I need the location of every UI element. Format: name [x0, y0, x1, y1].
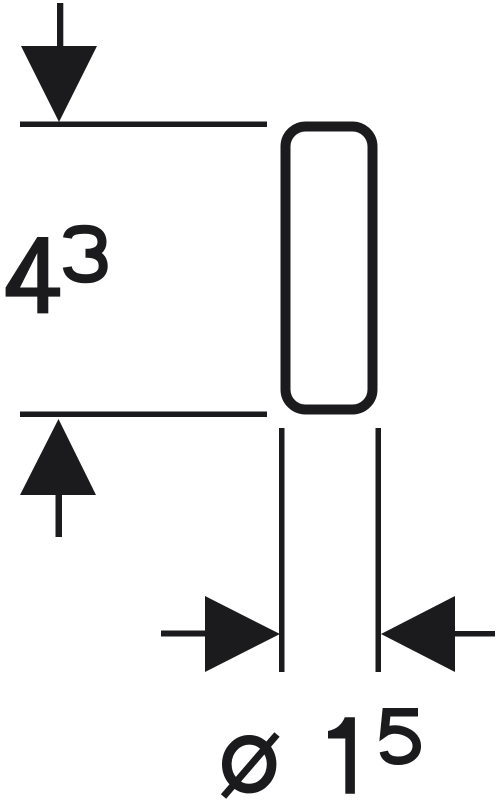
diameter symbol slash stroke — [224, 735, 278, 797]
diameter dimension label digit 1 — [328, 717, 355, 794]
dimension arrow left (pointing at right extension line) — [381, 596, 495, 672]
diameter dimension superscript digit 5 — [384, 712, 418, 761]
lower extension line — [20, 412, 267, 418]
diameter symbol o-slash ring — [227, 740, 272, 789]
left extension line (below part) — [279, 428, 285, 672]
right extension line (below part) — [376, 428, 382, 672]
dimension arrow up (pointing to lower extension line) — [20, 419, 96, 537]
dimension arrow down (top, pointing to upper extension line) — [21, 3, 97, 122]
upper extension line — [20, 122, 267, 128]
height dimension label digit 4 — [6, 237, 61, 313]
dimension arrow right (pointing at left extension line) — [161, 596, 280, 672]
part outline: rounded pill shape — [286, 127, 373, 410]
height dimension superscript digit 3 — [67, 229, 103, 278]
